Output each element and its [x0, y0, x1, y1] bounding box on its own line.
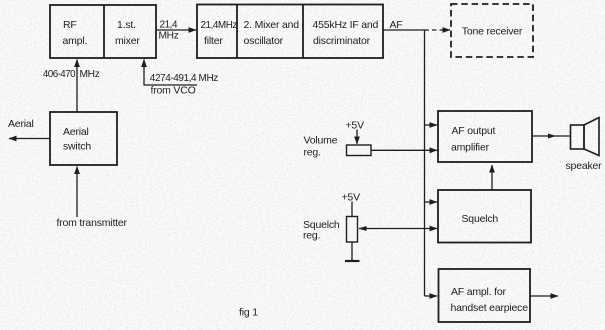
label RF ampl. — [63, 19, 88, 47]
svg-text:ampl.: ampl. — [63, 35, 88, 47]
ground — [345, 260, 360, 262]
wire aerial output arrow left — [9, 138, 50, 140]
svg-text:speaker: speaker — [566, 160, 603, 172]
wire aerial switch to RF ampl with arrow — [76, 60, 78, 113]
svg-text:handset earpiece: handset earpiece — [451, 302, 529, 314]
svg-text:MHz: MHz — [159, 31, 179, 42]
resistor squelch reg — [347, 217, 358, 243]
wire 1.st mixer to filter with arrow — [156, 29, 196, 31]
label AF ampl. for handset earpiece — [451, 286, 529, 314]
wire pot to ground — [351, 242, 353, 261]
wire bus elbow into handset box — [425, 295, 438, 297]
wire volume reg to AF output amplifier — [371, 149, 437, 151]
svg-text:455kHz IF and: 455kHz IF and — [313, 19, 379, 31]
wire bus to squelch (upper arrow) — [425, 201, 438, 203]
svg-text:switch: switch — [63, 141, 91, 153]
wire squelch to AF output amplifier arrow up — [491, 165, 493, 190]
svg-text:Squelch: Squelch — [462, 213, 499, 225]
svg-text:amplifier: amplifier — [451, 142, 490, 154]
label 21,4 MHz — [159, 20, 179, 42]
svg-text:AF ampl. for: AF ampl. for — [451, 286, 506, 298]
svg-text:RF: RF — [63, 19, 77, 31]
svg-text:+5V: +5V — [346, 120, 365, 132]
label 4274-491,4 MHz from VCO — [150, 73, 218, 97]
svg-text:1.st.: 1.st. — [117, 19, 136, 31]
svg-text:fig 1: fig 1 — [239, 307, 258, 319]
svg-text:discriminator: discriminator — [313, 35, 371, 47]
svg-text:from VCO: from VCO — [151, 85, 196, 97]
label Aerial switch — [63, 126, 91, 153]
label AF output amplifier — [451, 125, 496, 154]
svg-text:Volume: Volume — [304, 135, 338, 147]
wire AF bus vertical — [424, 30, 426, 296]
wire dashed arrow to tone receiver — [425, 29, 451, 31]
speaker — [571, 118, 600, 156]
block AF ampl. for handset earpiece — [439, 269, 531, 322]
label 21,4MHz filter — [201, 20, 238, 47]
wire +5V down arrow to volume pot — [356, 130, 358, 145]
svg-text:AF: AF — [390, 19, 403, 31]
svg-text:4274-491,4 MHz: 4274-491,4 MHz — [150, 73, 218, 84]
wire from transmitter arrow — [76, 167, 78, 218]
label 406-470 MHz — [43, 69, 100, 80]
wire squelch pot to squelch box (double arrow) — [359, 228, 437, 230]
svg-text:406-470: 406-470 — [43, 69, 76, 80]
wire handset output arrow — [530, 295, 558, 297]
block tone receiver (dashed) — [451, 4, 533, 57]
svg-text:Aerial: Aerial — [63, 126, 89, 138]
label Volume reg. — [304, 135, 338, 159]
svg-text:Tone receiver: Tone receiver — [462, 26, 523, 38]
svg-text:Aerial: Aerial — [8, 118, 34, 130]
svg-text:21,4: 21,4 — [160, 20, 179, 31]
svg-text:oscillator: oscillator — [244, 35, 284, 47]
label 2. Mixer and oscillator — [244, 19, 300, 47]
svg-text:2. Mixer and: 2. Mixer and — [244, 19, 300, 31]
svg-text:from transmitter: from transmitter — [57, 217, 128, 229]
svg-text:filter: filter — [204, 35, 223, 47]
wire +5V to squelch pot — [351, 202, 353, 217]
svg-text:21,4MHz: 21,4MHz — [201, 20, 238, 31]
resistor volume reg — [347, 145, 372, 156]
block AF output amplifier — [438, 111, 532, 162]
block Squelch — [438, 190, 531, 243]
svg-text:MHz: MHz — [80, 69, 100, 80]
wire AF output amplifier to speaker — [532, 135, 570, 137]
svg-text:mixer: mixer — [115, 35, 140, 47]
svg-text:AF output: AF output — [452, 125, 496, 137]
wire VCO elbow into 1.st mixer — [144, 60, 197, 86]
block 21,4MHz filter / 2. Mixer and oscillator / 455kHz IF and discriminator — [197, 5, 383, 59]
svg-text:reg.: reg. — [304, 147, 321, 159]
svg-text:+5V: +5V — [342, 192, 361, 204]
label 455kHz IF and discriminator — [313, 19, 379, 47]
label 1.st. mixer — [115, 19, 140, 47]
block aerial switch — [50, 112, 117, 165]
wire 455kHz box to AF node — [383, 29, 425, 31]
block RF ampl. / 1.st. mixer — [50, 5, 156, 58]
svg-text:reg.: reg. — [303, 230, 320, 242]
wire bus to AF output amplifier (upper arrow) — [425, 124, 438, 126]
label Squelch reg. — [303, 219, 340, 242]
